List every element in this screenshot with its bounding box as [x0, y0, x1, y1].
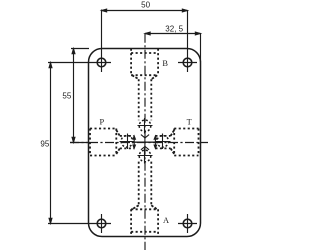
dimension 95 line with arrows: [49, 63, 52, 224]
mounting hole top-right: [178, 53, 197, 72]
port T counterbore (hidden): [171, 129, 199, 156]
drill cone base T with arrows: [154, 136, 157, 149]
dimension 32,5 line with arrows: [145, 32, 201, 35]
vertical center line (dash-dot): [144, 34, 146, 250]
drill cone tip B (down V): [141, 135, 149, 138]
plate outline: [89, 49, 201, 237]
port P drill channel (hidden): [120, 136, 134, 149]
svg-text:P: P: [99, 117, 104, 126]
dimension 50 line with arrows: [102, 9, 188, 12]
svg-text:55: 55: [62, 92, 71, 101]
port B drill channel (hidden): [139, 79, 152, 120]
mounting hole bottom-right: [178, 214, 197, 233]
port A drill channel (hidden): [139, 162, 152, 206]
drill cone base P with arrows: [133, 136, 136, 149]
port B counterbore (hidden): [131, 49, 158, 80]
extension line P center for 55: [70, 142, 89, 144]
horizontal center line (dash-dot): [70, 142, 208, 144]
mounting hole top-left: [92, 53, 111, 72]
extension line left of bottom-left hole (for 95): [48, 223, 92, 225]
svg-text:50: 50: [141, 1, 150, 10]
extension line top-right hole up (for 50): [187, 10, 189, 53]
extension line plate top for 55: [71, 48, 89, 50]
extension line right edge up (for 32,5): [200, 33, 202, 62]
mounting hole bottom-left: [92, 214, 111, 233]
port T drill channel (hidden): [155, 136, 170, 149]
center cross solid lines: [134, 136, 157, 153]
svg-text:95: 95: [40, 140, 49, 149]
svg-text:A: A: [163, 216, 169, 225]
valve pattern port circle W: [120, 134, 135, 150]
svg-text:T: T: [187, 118, 192, 127]
port A counterbore (hidden): [131, 205, 158, 237]
port P counterbore (hidden): [90, 129, 120, 156]
dimension 55 line with arrows: [72, 49, 75, 143]
svg-text:32, 5: 32, 5: [165, 24, 183, 33]
svg-text:B: B: [162, 59, 168, 68]
valve pattern port circle N: [138, 118, 153, 134]
extension line left of top-left hole (for 95): [48, 62, 92, 64]
valve pattern port circle S: [138, 148, 153, 164]
valve pattern port circle E: [155, 134, 171, 150]
extension line top-left hole up (for 50): [101, 10, 103, 54]
drill cone tip A (up V): [141, 147, 149, 150]
